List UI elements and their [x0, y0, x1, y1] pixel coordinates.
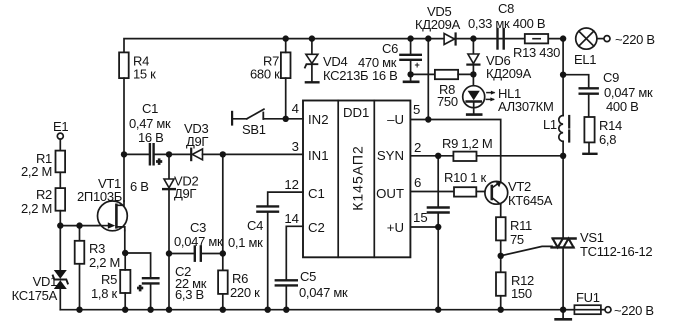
svg-text:75: 75: [510, 232, 524, 247]
resistor R4: [119, 52, 129, 78]
svg-text:VD1: VD1: [33, 274, 57, 289]
resistor R8: [435, 70, 458, 79]
wire C1 to VD2 node: [154, 153, 190, 155]
svg-text:14: 14: [284, 211, 299, 226]
triac VS1: [552, 156, 576, 310]
svg-text:6,3 В: 6,3 В: [175, 287, 204, 302]
svg-text:2,2 М: 2,2 М: [21, 164, 52, 179]
wire SYN row: chip to R9 to L1 bottom node: [410, 155, 453, 157]
resistor R5: [120, 253, 130, 310]
chip pin labels: [284, 101, 427, 235]
capacitor C4: [257, 206, 278, 309]
wire R9 right to node: [477, 155, 564, 157]
svg-text:Д9Г: Д9Г: [186, 134, 208, 149]
wire SB1 node to pin4: [263, 118, 303, 120]
diode VD6: [467, 39, 479, 75]
svg-text:16 В: 16 В: [372, 68, 398, 83]
capacitor C5: [276, 280, 297, 309]
wire +U pin15 down to rail: [410, 227, 438, 310]
svg-text:+: +: [157, 157, 162, 167]
wire OUT pin6 to R10: [410, 191, 454, 193]
svg-text:0,47 мк: 0,47 мк: [129, 116, 171, 131]
wire EL1 node down to L1 node: [562, 39, 564, 75]
resistor R10: [454, 187, 476, 196]
diode VD5: [444, 34, 456, 45]
svg-text:КД209А: КД209А: [415, 17, 461, 32]
svg-text:ТС112-16-12: ТС112-16-12: [580, 244, 652, 259]
diode VD3: [191, 149, 202, 160]
svg-text:6 В: 6 В: [130, 179, 149, 194]
svg-text:OUT: OUT: [376, 186, 404, 201]
svg-text:L1: L1: [543, 117, 557, 132]
zener VD1 bidirectional: [53, 226, 68, 310]
terminal ~220V bottom: [605, 307, 611, 313]
wire bottom rail: [60, 309, 563, 311]
svg-text:E1: E1: [53, 119, 68, 134]
svg-text:SB1: SB1: [242, 122, 266, 137]
svg-text:+: +: [138, 283, 143, 293]
wire R10 to VT2 base: [476, 191, 491, 193]
svg-text:16 В: 16 В: [138, 130, 164, 145]
lamp EL1: [576, 28, 597, 49]
svg-text:5: 5: [413, 102, 420, 117]
svg-text:~220 В: ~220 В: [614, 303, 654, 318]
svg-text:К145АП2: К145АП2: [350, 145, 366, 211]
svg-text:2П103Б: 2П103Б: [77, 189, 122, 204]
wire R8 to VD6/HL1 node: [458, 73, 473, 75]
wire source node to C2: [125, 253, 150, 277]
wire VD3 to pin3: [203, 153, 304, 155]
svg-text:VT2: VT2: [508, 179, 531, 194]
svg-text:680 к: 680 к: [250, 67, 280, 82]
capacitor C1 electrolytic: [150, 144, 162, 166]
svg-text:C1: C1: [142, 101, 158, 116]
svg-text:12: 12: [284, 177, 299, 192]
wire pin14 to C5: [286, 226, 303, 279]
svg-text:КС213Б: КС213Б: [323, 68, 368, 83]
svg-text:C2: C2: [308, 220, 325, 235]
resistor R6: [218, 270, 228, 309]
zener VD4: [305, 39, 319, 83]
ground at FU1 node: [556, 310, 571, 320]
svg-text:АЛ307КМ: АЛ307КМ: [498, 99, 553, 114]
svg-text:КТ645А: КТ645А: [508, 193, 553, 208]
capacitor C9: [580, 88, 598, 117]
resistor R11: [496, 217, 506, 256]
capacitor C8: [498, 29, 504, 49]
wire IN1 row: node to pin3: [124, 153, 149, 155]
fuse FU1: [563, 305, 605, 314]
terminal ~220V top: [604, 36, 610, 42]
wire top rail left (R4 top to EL1): [124, 39, 563, 53]
transistor VT2: [485, 181, 508, 217]
svg-text:IN1: IN1: [308, 148, 329, 163]
wire pin12 to C4: [268, 192, 303, 205]
svg-text:3: 3: [292, 139, 299, 154]
svg-text:VS1: VS1: [580, 230, 604, 245]
capacitor C3: [195, 247, 201, 261]
resistor R3: [75, 226, 85, 310]
chip DD1 box: [303, 101, 410, 258]
svg-text:220 к: 220 к: [230, 285, 260, 300]
inductor L1: [559, 75, 569, 156]
svg-text:15 к: 15 к: [133, 67, 156, 82]
svg-text:R6: R6: [232, 271, 248, 286]
svg-text:EL1: EL1: [574, 52, 596, 67]
svg-text:R9 1,2 М: R9 1,2 М: [442, 136, 492, 151]
wire rail to pin5 (vertical x=428.3): [427, 39, 429, 120]
wire gate row to VT1: [60, 225, 98, 227]
transistor VT1: [98, 201, 128, 231]
svg-text:~220 В: ~220 В: [615, 32, 655, 47]
svg-text:R14: R14: [599, 118, 622, 133]
resistor R1: [56, 151, 66, 189]
svg-text:VD4: VD4: [323, 54, 347, 69]
wire VT1 source down: [124, 230, 126, 253]
svg-text:0,047 мк: 0,047 мк: [604, 85, 653, 100]
wire -U pin5 to VT2 collector: [410, 120, 500, 182]
svg-text:C8: C8: [498, 1, 514, 16]
wire VT1 drain up: [123, 154, 125, 201]
svg-text:750: 750: [437, 94, 458, 109]
svg-text:4: 4: [292, 101, 299, 116]
svg-text:C5: C5: [300, 269, 316, 284]
resistor R12: [496, 256, 506, 310]
svg-text:R10 1 к: R10 1 к: [444, 170, 487, 185]
svg-text:0,047 мк: 0,047 мк: [174, 234, 223, 249]
svg-text:2,2 М: 2,2 М: [89, 255, 120, 270]
svg-text:КС175А: КС175А: [12, 288, 58, 303]
svg-text:SYN: SYN: [377, 148, 404, 163]
svg-text:C6: C6: [382, 41, 398, 56]
svg-text:15: 15: [413, 210, 428, 225]
svg-text:R3: R3: [89, 241, 105, 256]
svg-text:DD1: DD1: [343, 105, 369, 120]
svg-text:6: 6: [414, 175, 421, 190]
svg-text:C9: C9: [603, 70, 619, 85]
svg-text:2,2 М: 2,2 М: [21, 201, 52, 216]
svg-text:1,8 к: 1,8 к: [91, 286, 117, 301]
svg-text:400 В: 400 В: [606, 99, 638, 114]
svg-text:R13 430: R13 430: [513, 45, 560, 60]
wire L1 node to C9: [563, 75, 589, 88]
wire EL1 to terminal: [597, 38, 604, 40]
svg-text:6,8: 6,8: [599, 132, 616, 147]
svg-text:FU1: FU1: [576, 290, 600, 305]
switch SB1: [232, 109, 264, 124]
svg-text:+: +: [415, 60, 420, 70]
wire gate to triac: [501, 246, 552, 255]
wire C6 to R8 to HL1 node: [411, 73, 435, 75]
resistor R14: [583, 117, 596, 154]
svg-text:0,1 мк: 0,1 мк: [228, 235, 263, 250]
resistor R2: [56, 188, 66, 226]
svg-text:0,33 мк 400 В: 0,33 мк 400 В: [468, 16, 545, 31]
ground under C6: [404, 74, 418, 81]
svg-text:C4: C4: [247, 218, 263, 233]
svg-text:КД209А: КД209А: [486, 66, 532, 81]
svg-text:+U: +U: [387, 220, 404, 235]
LED HL1: [463, 74, 496, 114]
svg-text:R2: R2: [36, 187, 52, 202]
terminal E1: [57, 133, 63, 151]
svg-text:0,047 мк: 0,047 мк: [299, 285, 348, 300]
svg-text:C1: C1: [308, 186, 325, 201]
resistor R13: [525, 34, 548, 43]
svg-text:R5: R5: [101, 272, 117, 287]
wire IN1 node down through C3 node to R6: [222, 154, 224, 270]
svg-text:Д9Г: Д9Г: [174, 186, 196, 201]
svg-text:2: 2: [414, 140, 421, 155]
svg-text:–U: –U: [387, 112, 404, 127]
svg-text:C3: C3: [190, 220, 206, 235]
capacitor C6 electrolytic: [400, 39, 420, 75]
svg-text:IN2: IN2: [308, 112, 329, 127]
svg-text:R11: R11: [510, 218, 532, 233]
resistor R7: [281, 39, 291, 119]
wire C3 row: [169, 253, 194, 255]
capacitor C2 electrolytic: [138, 278, 159, 310]
resistor R9: [453, 152, 476, 161]
wire R4 bottom to IN1 node: [123, 78, 125, 154]
capacitor C7: [428, 156, 449, 227]
svg-text:150: 150: [511, 286, 532, 301]
diode VD2: [163, 154, 175, 309]
